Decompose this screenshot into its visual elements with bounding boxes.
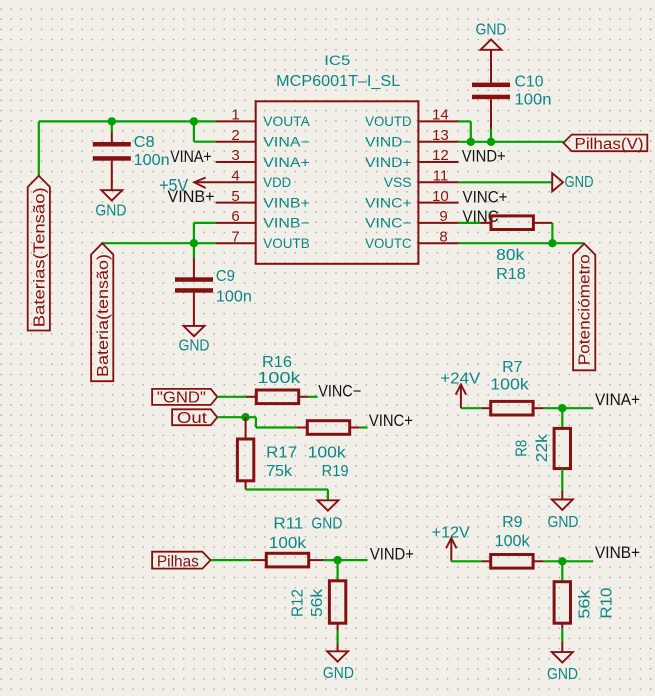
svg-text:VIND+: VIND+ bbox=[365, 154, 412, 170]
wire junction to R19 row bbox=[246, 416, 256, 418]
resistor R7 bbox=[491, 401, 533, 415]
svg-text:Bateria(tensão): Bateria(tensão) bbox=[95, 254, 112, 377]
svg-text:9: 9 bbox=[439, 208, 447, 225]
node junction R9/R10 bbox=[558, 557, 566, 565]
svg-text:VSS: VSS bbox=[384, 174, 412, 190]
ground below R10 bbox=[552, 652, 573, 662]
pin 1 VOUTA stub bbox=[216, 120, 256, 122]
wire to pin 6 bbox=[194, 222, 216, 224]
svg-text:GND: GND bbox=[311, 515, 342, 532]
svg-text:VINB−: VINB− bbox=[263, 215, 310, 231]
svg-text:VOUTD: VOUTD bbox=[365, 113, 412, 129]
wire R11 to VIND+ label bbox=[323, 559, 367, 561]
svg-text:4: 4 bbox=[231, 168, 239, 185]
capacitor C10 bbox=[490, 50, 492, 83]
svg-text:IC5: IC5 bbox=[324, 52, 350, 68]
global label Potenciometro vertical bbox=[573, 244, 595, 371]
pin 13 VIND- stub bbox=[418, 141, 458, 143]
wire pin14 branch down bbox=[470, 121, 472, 141]
svg-text:8: 8 bbox=[439, 228, 447, 245]
svg-text:C10: C10 bbox=[515, 74, 544, 91]
resistor R19 bbox=[307, 421, 349, 435]
wire GND tag to R16 bbox=[217, 396, 246, 398]
svg-text:2: 2 bbox=[231, 127, 239, 144]
wire pin13 to Pilhas(V) label bbox=[459, 141, 564, 143]
svg-text:GND: GND bbox=[179, 337, 210, 354]
svg-text:VINB+: VINB+ bbox=[168, 188, 215, 206]
svg-text:VINB+: VINB+ bbox=[595, 544, 640, 562]
node junction R11/R12 bbox=[333, 556, 341, 564]
svg-text:C8: C8 bbox=[134, 134, 155, 151]
ground below R12 bbox=[327, 651, 348, 661]
svg-text:Pilhas(V): Pilhas(V) bbox=[575, 136, 644, 153]
svg-text:5: 5 bbox=[231, 188, 239, 205]
pin 6 VINB- stub bbox=[216, 222, 256, 224]
R17 top lead bbox=[245, 417, 247, 438]
wire Pilhas to R11 bbox=[211, 559, 251, 561]
svg-text:R19: R19 bbox=[322, 463, 349, 480]
C10 bottom lead wire bbox=[490, 129, 492, 142]
op-amp IC5 MCP6001T-I_SL body bbox=[256, 101, 419, 263]
svg-text:7: 7 bbox=[231, 228, 239, 245]
svg-text:R7: R7 bbox=[502, 359, 523, 376]
svg-text:VINA+: VINA+ bbox=[170, 148, 212, 166]
wire pin11 to GND bbox=[459, 181, 553, 183]
ground below C8 bbox=[101, 190, 122, 200]
pin 3 VINA+ stub bbox=[216, 161, 256, 163]
R12 bottom lead bbox=[337, 624, 339, 631]
wire +12V to R9 bbox=[451, 560, 481, 562]
svg-text:VIND+: VIND+ bbox=[462, 147, 506, 165]
svg-text:100k: 100k bbox=[490, 377, 530, 394]
capacitor C9 bbox=[193, 258, 195, 278]
wire junction down to R12 bbox=[337, 560, 339, 580]
resistor R16 bbox=[256, 390, 298, 404]
svg-text:100k: 100k bbox=[495, 533, 531, 550]
wire R18 right down to pin8 net bbox=[551, 223, 553, 243]
svg-text:75k: 75k bbox=[266, 463, 293, 480]
svg-text:GND: GND bbox=[565, 174, 594, 191]
ground below R8 bbox=[552, 500, 573, 510]
svg-text:Baterias(Tensão): Baterias(Tensão) bbox=[32, 187, 49, 327]
svg-text:6: 6 bbox=[231, 208, 239, 225]
capacitor C8 bbox=[111, 132, 113, 142]
svg-text:80k: 80k bbox=[496, 247, 525, 264]
wire R9 to VINB+ label bbox=[543, 560, 593, 562]
svg-text:14: 14 bbox=[432, 107, 449, 124]
node junction C10 lead bbox=[487, 138, 495, 146]
svg-text:100k: 100k bbox=[308, 444, 347, 461]
svg-text:"GND": "GND" bbox=[157, 389, 206, 406]
svg-text:100n: 100n bbox=[216, 289, 252, 306]
wire junction up to pin6 bbox=[193, 223, 195, 243]
resistor R17 vertical bbox=[237, 439, 253, 481]
capacitor C9 top lead wire bbox=[193, 243, 195, 258]
node junction R7/R8 bbox=[558, 404, 566, 412]
wire R12 to GND bbox=[337, 631, 339, 644]
svg-text:56k: 56k bbox=[576, 588, 593, 618]
svg-text:100k: 100k bbox=[269, 535, 307, 552]
node junction C8 top bbox=[108, 117, 116, 125]
ground below C9 bbox=[184, 326, 205, 336]
svg-text:GND: GND bbox=[323, 665, 354, 682]
global label "GND" tag bbox=[152, 389, 217, 405]
wire pin1 net horizontal bbox=[39, 120, 216, 122]
svg-text:C9: C9 bbox=[216, 268, 235, 285]
wire R7 to VINA+ label bbox=[543, 407, 593, 409]
pin 2 VINA- stub bbox=[216, 141, 256, 143]
resistor R12 vertical bbox=[329, 581, 345, 623]
svg-text:VINC+: VINC+ bbox=[463, 188, 508, 206]
wire Out tag to junction bbox=[217, 416, 245, 418]
pin 9 VINC- stub bbox=[418, 222, 458, 224]
svg-text:100k: 100k bbox=[257, 370, 301, 387]
wire junction down to R8 bbox=[561, 408, 563, 428]
svg-text:R9: R9 bbox=[502, 514, 523, 531]
svg-text:VINA+: VINA+ bbox=[263, 154, 310, 170]
resistor R10 vertical bbox=[554, 582, 570, 624]
global label Baterias(Tensao) vertical bbox=[28, 176, 50, 331]
pin 8 VOUTC stub bbox=[418, 242, 458, 244]
svg-text:VINA−: VINA− bbox=[263, 134, 310, 150]
svg-text:100n: 100n bbox=[134, 152, 170, 169]
svg-text:VOUTA: VOUTA bbox=[263, 113, 310, 129]
svg-text:VINC−: VINC− bbox=[318, 383, 361, 401]
resistor R9 bbox=[491, 555, 533, 569]
svg-text:R17: R17 bbox=[266, 444, 297, 461]
wire R8 to GND bbox=[561, 469, 563, 491]
wire R19 to VINC+ label bbox=[359, 426, 367, 428]
svg-text:VINB+: VINB+ bbox=[263, 194, 310, 210]
node junction Out/R17 bbox=[241, 413, 249, 421]
svg-text:R18: R18 bbox=[496, 266, 526, 283]
node junction R18 pin8 bbox=[548, 239, 556, 247]
svg-text:VINC+: VINC+ bbox=[365, 194, 412, 210]
svg-text:Pilhas: Pilhas bbox=[157, 553, 199, 570]
svg-text:11: 11 bbox=[433, 168, 449, 185]
pin 14 VOUTD stub bbox=[418, 120, 458, 122]
svg-text:100n: 100n bbox=[515, 92, 552, 109]
wire down to Baterias tag bbox=[38, 121, 40, 176]
svg-text:VOUTC: VOUTC bbox=[365, 235, 412, 251]
svg-text:GND: GND bbox=[547, 666, 578, 683]
wire +24V to R7 bbox=[461, 407, 482, 409]
svg-text:10: 10 bbox=[432, 188, 449, 205]
svg-text:R16: R16 bbox=[262, 354, 292, 371]
wire pin7 net horizontal bbox=[102, 242, 215, 244]
capacitor C8 top lead wire bbox=[111, 121, 113, 132]
wire to pin 2 bbox=[194, 141, 216, 143]
svg-text:R10: R10 bbox=[599, 588, 616, 619]
resistor R18 bbox=[491, 216, 533, 230]
pin 4 VDD stub bbox=[216, 181, 256, 183]
svg-text:VIND−: VIND− bbox=[365, 134, 412, 150]
svg-text:VINA+: VINA+ bbox=[595, 391, 640, 409]
wire pin14 to branch bbox=[459, 120, 471, 122]
svg-text:VDD: VDD bbox=[263, 174, 291, 190]
R17 bottom lead bbox=[245, 481, 247, 489]
global label Pilhas(V) bbox=[563, 135, 647, 152]
svg-text:VINC−: VINC− bbox=[365, 215, 412, 231]
resistor R11 bbox=[266, 553, 308, 567]
pin 7 VOUTB stub bbox=[216, 242, 256, 244]
pin 12 VIND+ stub bbox=[418, 161, 458, 163]
svg-text:13: 13 bbox=[432, 127, 449, 144]
ground below R17 bbox=[317, 500, 338, 510]
R10 bottom lead bbox=[561, 624, 563, 629]
svg-text:VOUTB: VOUTB bbox=[263, 235, 310, 251]
svg-text:GND: GND bbox=[95, 203, 126, 220]
svg-text:VINC+: VINC+ bbox=[369, 412, 413, 430]
svg-text:12: 12 bbox=[432, 147, 449, 164]
svg-text:Potenciómetro: Potenciómetro bbox=[577, 254, 594, 365]
svg-text:3: 3 bbox=[231, 147, 239, 164]
svg-text:56k: 56k bbox=[309, 588, 326, 617]
wire R16 to VINC- label bbox=[309, 396, 318, 398]
global label Pilhas tag bbox=[152, 552, 210, 569]
svg-text:1: 1 bbox=[231, 107, 239, 124]
svg-text:R8: R8 bbox=[513, 440, 530, 457]
global label Bateria(tensao) vertical bbox=[91, 243, 113, 381]
pin 10 VINC+ stub bbox=[418, 202, 458, 204]
svg-text:GND: GND bbox=[476, 22, 507, 39]
wire pin8 to Potenciometro bbox=[459, 242, 585, 244]
wire R10 to GND bbox=[561, 629, 563, 642]
svg-text:GND: GND bbox=[548, 514, 579, 531]
wire junction down to R10 bbox=[561, 561, 563, 581]
svg-text:MCP6001T–I_SL: MCP6001T–I_SL bbox=[276, 73, 400, 90]
node junction pin14 branch bbox=[467, 138, 475, 146]
node junction pin2 branch bbox=[190, 117, 198, 125]
resistor R8 vertical bbox=[554, 428, 570, 468]
svg-text:VIND+: VIND+ bbox=[370, 545, 414, 563]
ground right-pointing at pin11 bbox=[552, 173, 563, 191]
pin 11 VSS stub bbox=[418, 181, 458, 183]
pin 5 VINB+ stub bbox=[216, 202, 256, 204]
node junction C9 top bbox=[190, 239, 198, 247]
wire pin9 to R18 bbox=[459, 222, 481, 224]
wire junction to pin2 vertical bbox=[193, 121, 195, 141]
svg-text:22k: 22k bbox=[534, 433, 551, 462]
global label Out tag bbox=[172, 409, 217, 425]
svg-text:R11: R11 bbox=[273, 515, 303, 532]
svg-text:R12: R12 bbox=[289, 589, 306, 617]
svg-text:Out: Out bbox=[177, 410, 208, 427]
wire R17 bottom to GND bbox=[246, 488, 328, 490]
